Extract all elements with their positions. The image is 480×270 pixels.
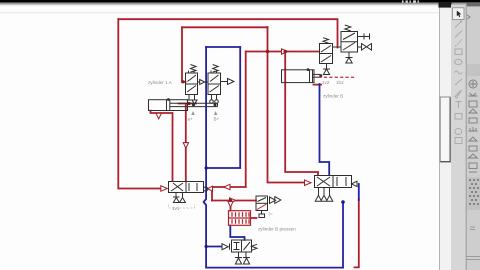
svg-text:zylinder B: zylinder B bbox=[323, 94, 343, 99]
svg-text:1v1: 1v1 bbox=[172, 206, 180, 211]
svg-text:1v2: 1v2 bbox=[322, 80, 330, 85]
svg-text:1b2: 1b2 bbox=[336, 80, 344, 85]
svg-text:zylinder B pressen: zylinder B pressen bbox=[258, 227, 296, 232]
svg-text:B+: B+ bbox=[214, 117, 220, 122]
svg-text:(=: (= bbox=[269, 212, 274, 217]
svg-text:a+: a+ bbox=[188, 117, 194, 122]
svg-text:zylinder 1 A: zylinder 1 A bbox=[148, 80, 173, 85]
